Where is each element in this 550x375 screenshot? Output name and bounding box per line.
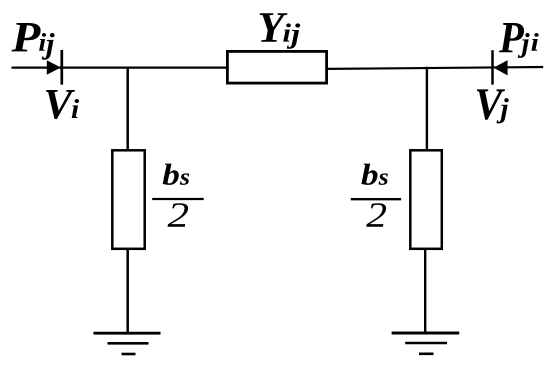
shunt susceptance box bs/2 (left) [112,150,144,249]
node tick j (vertical bar at arrow tip) [491,50,494,84]
label Pji [499,23,539,58]
label bs/2 (left): fraction bar [152,198,204,200]
series admittance box Yij [227,51,326,83]
arrow head: power flow Pji (points left) [494,60,508,75]
wire: right horizontal lead into node j [327,67,543,69]
ground (right): bottom bar [419,352,434,355]
label bs/2 (left): subscript s [180,173,189,185]
label bs/2 (left): denominator 2 [168,203,189,227]
label bs/2 (left): numerator b [163,164,179,185]
ground (left): top bar [94,332,161,335]
label bs/2 (right): numerator b [361,164,377,185]
wire: left horizontal lead into node i [12,66,228,68]
node tick i (vertical bar at arrow tip) [60,50,63,85]
label bs/2 (right): denominator 2 [366,203,386,227]
label bs/2 (right): fraction bar [351,198,401,200]
label Vj [477,89,509,123]
wire: left shunt drop from node i to box [126,67,129,151]
shunt susceptance box bs/2 (right) [410,150,442,249]
ground (left): bottom bar [122,353,136,356]
wire: left shunt drop from box to ground [126,249,129,333]
wire: right shunt drop from box to ground [424,249,426,333]
ground (right): middle bar [405,342,447,345]
label Vi [46,90,79,119]
label Yij [260,13,301,49]
wire: right shunt drop from node j to box [426,67,428,151]
arrow head: power flow Pij (points right) [47,60,61,75]
label Pij [12,23,55,60]
ground (right): top bar [392,332,460,335]
ground (left): middle bar [108,342,149,345]
label bs/2 (right): subscript s [379,173,388,185]
